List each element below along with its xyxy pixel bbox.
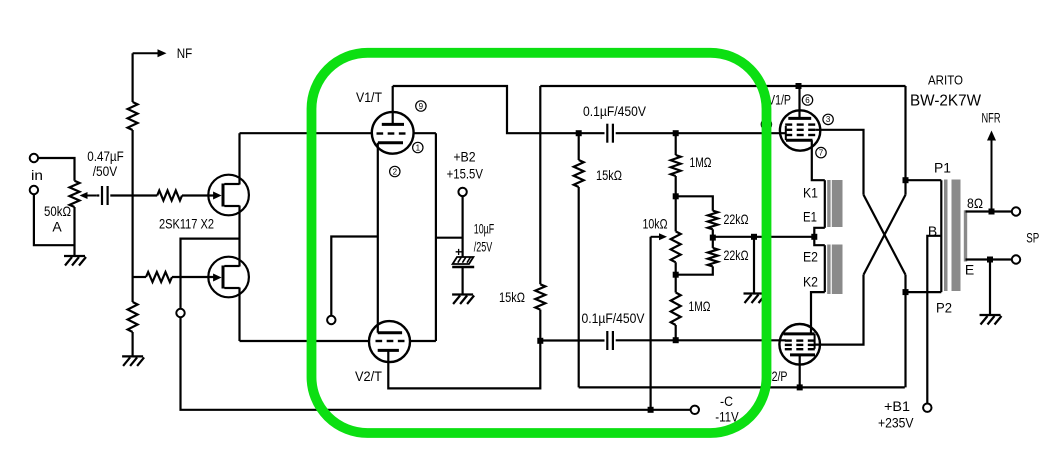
resistor 15kΩ load lower [535,284,545,309]
wire P2 stub [906,291,942,293]
wire 15k upper top lead [578,133,580,160]
svg-text:22kΩ: 22kΩ [724,247,749,263]
svg-text:V2/T: V2/T [355,368,382,384]
input jack terminal (in, return) [30,186,38,194]
wire V1/T cathode to V2/T cathode [377,143,379,333]
wire 1M upper top lead [675,133,677,155]
transformer primary winding P1-B-P2 [940,180,942,292]
transformer core bar thin (K side lower) [827,245,830,295]
svg-text:+B1: +B1 [884,398,910,414]
pin 1 of V1/T [413,142,423,152]
wire V2/T cathode-tail tap to TP2 [331,237,378,316]
svg-text:15kΩ: 15kΩ [596,167,622,183]
pin 6 of V1/P [802,95,812,105]
wire +B2 terminal down [462,196,464,257]
wire secondary top (8Ω) [966,210,1012,212]
pentode V1/P g2 dashes [785,129,815,131]
wire V1/T plate to coupling node [393,86,579,133]
wire 10k wiper to -C rail [649,237,651,410]
junction 22k midpoint [710,235,716,241]
junction V1/T plate node [576,130,582,136]
pentode V1/P plate bar [788,117,811,120]
junction bias divider top [673,193,679,199]
svg-text:7: 7 [819,148,824,157]
pin 2 of V1/T [390,166,400,176]
wire pot bottom lead [675,262,677,274]
triode V1/T grid dashes [377,132,406,134]
svg-text:2: 2 [393,167,398,176]
svg-text:BW-2K7W: BW-2K7W [910,93,982,110]
wire V1/P screen g2 to cross [815,130,863,195]
transformer winding E2-K2 [824,245,826,292]
pentode V1/P grid side-rail [785,126,787,140]
svg-text:in: in [31,167,43,183]
pentode V2/P cathode flag tick [814,334,816,349]
resistor NF divider lower [128,302,138,332]
wire NF feedback vertical [132,53,134,102]
wire TP1 to -C rail [181,317,389,410]
ground (screen return) [744,294,766,304]
ground (input pot) [64,256,86,266]
svg-text:0.1µF/450V: 0.1µF/450V [583,103,647,119]
svg-text:1MΩ: 1MΩ [689,298,711,314]
test point TP1 [176,309,184,317]
wire divider top to 22k [676,196,713,210]
wire 1M node to V1/P grid [676,132,786,134]
wire V2/T plate node to cap2 [540,339,604,341]
svg-text:P2: P2 [936,300,952,316]
wire 1M upper bottom lead [675,176,677,196]
wire V1/P cathode to K1 [812,140,825,180]
pin 9 of V1/T [416,101,426,111]
triode V2/T envelope [369,321,410,362]
wire rail corner down to P1 [904,86,906,195]
JFET Q2 (2SK117) envelope [208,257,249,298]
pentode V2/P plate bar [790,353,815,356]
wire cap to gate resistor Q1 [110,194,157,196]
wire grid bias vertical (B2 rail) [435,133,437,341]
JFET Q1 source stub [224,205,239,207]
svg-text:A: A [52,219,62,235]
junction wiper to -C rail [648,407,654,413]
wire 15k upper to V2/P plate node [579,386,800,388]
svg-text:10µF: 10µF [474,221,495,237]
pentode V1/P envelope [780,110,820,150]
junction V2/T plate node [537,338,543,344]
wire cross A to P2 node [904,275,906,388]
svg-text:2SK117 X2: 2SK117 X2 [159,216,214,232]
wire V1/T plate riser [392,86,394,124]
transformer core bar thick (K side lower) [832,245,843,295]
terminal SP return [1012,255,1020,263]
svg-text:B: B [928,223,937,239]
wire cap2 to V2/P grid [616,339,786,341]
pentode V2/P g3 dashes [785,348,815,350]
svg-text:P1: P1 [934,160,951,176]
svg-text:E: E [965,262,974,278]
svg-text:22kΩ: 22kΩ [724,211,749,227]
svg-text:E2: E2 [803,249,818,265]
wire cross diagonal A [864,195,906,275]
wire NF to ground [132,332,134,356]
pentode V1/P g3 dashes [785,123,815,125]
svg-text:+15.5V: +15.5V [447,166,484,182]
junction E ground tap [987,257,993,263]
junction E1-E2 node [811,234,817,240]
wire NF mid segment [132,130,134,302]
junction NFR tap [989,209,995,215]
capacitor 0.47µF/50V [102,186,108,205]
svg-text:V1/T: V1/T [356,89,382,105]
JFET Q2 drain stub [224,265,239,267]
pin 1 of V1/P [761,119,771,129]
wire gate resistor to Q2 [172,276,214,278]
NF arrow [133,49,167,57]
wire V1/T grid right stub [414,132,436,134]
capacitor 0.1µF/450V (lower) [607,331,613,350]
resistor NF feedback upper [128,102,138,130]
pentode V2/P cathode bar [784,332,815,335]
junction V1/P plate node [796,83,802,89]
junction V2/P grid node [673,337,679,343]
wire K2 to V2/P cathode [811,292,825,334]
wire Q2 source to V2/T grid [240,340,370,342]
wire cascode tap to test point TP1 [181,239,240,309]
pentode V1/P cathode bar [786,139,813,142]
wire V2/T grid right stub [410,340,436,342]
transformer core bar thin (K side upper) [827,180,830,227]
terminal +B2 [458,188,466,196]
svg-text:K2: K2 [803,274,818,290]
svg-text:1: 1 [416,143,421,152]
wire 22k bottom to divider [676,266,713,274]
pentode V2/P g1 dashes [785,339,815,341]
transformer winding K1-E1 [824,180,826,228]
potentiometer 50kΩ wiper arrow [80,192,97,199]
wire 15k lower bottom lead [539,310,541,341]
resistor gate Q2 [146,272,172,282]
pentode V1/P g1 dashes [785,134,815,136]
wire 15k lower top lead (from B rail) [539,86,541,284]
svg-text:3: 3 [826,115,831,124]
resistor 22kΩ lower [708,248,718,267]
wire 10µF to ground [462,267,464,295]
resistor 22kΩ upper [708,211,718,230]
junction P1 tap [903,177,909,183]
pin 3 of V1/P [823,114,833,124]
wire gate lead Q2 [133,276,146,278]
wire 22k mid lead [712,229,714,248]
triode V1/T envelope [372,112,414,154]
wire P1 stub [906,179,942,181]
wire pot bottom / input return [34,194,75,245]
pin 7 of V1/P [816,147,826,157]
potentiometer 50kΩ body [70,181,80,207]
triode V1/T cathode bar [378,141,403,144]
pentode V2/P envelope [779,324,820,365]
terminal +B1 [923,404,931,412]
wire pot wiper to coupling cap [97,194,100,196]
svg-text:-C: -C [720,393,733,409]
wire ground tap down [753,237,755,294]
wire cap1 to 1M node [616,132,676,134]
wire V2/P screen g2 to cross [815,275,863,345]
triode V1/T plate bar [382,123,404,126]
svg-text:1MΩ: 1MΩ [690,154,712,170]
wire 22k mid to screen-return node [713,236,815,238]
transformer core bar thick (K side upper) [832,180,843,227]
svg-text:ARITO: ARITO [928,73,963,88]
svg-text:10kΩ: 10kΩ [643,216,668,232]
potentiometer 10kΩ wiper arrow [651,233,667,240]
svg-text:50kΩ: 50kΩ [44,203,71,219]
wire E1 lead [814,228,825,237]
resistor 1MΩ lower [671,293,681,326]
wire cross diagonal B [864,195,906,275]
wire B+ rail to P1 [540,85,905,87]
highlight rounded rectangle (green) [312,53,767,433]
wire 1M lower top lead [675,275,677,293]
wire B2 rail stub [436,237,463,239]
junction P2 tap [903,289,909,295]
JFET Q2 channel bar [222,266,225,289]
svg-text:K1: K1 [803,185,818,201]
wire pot bottom to ground [73,207,75,256]
wire 10k pot top lead [675,196,677,231]
svg-text:8Ω: 8Ω [967,195,983,211]
JFET Q1 channel bar [222,184,225,207]
svg-text:+B2: +B2 [453,149,475,165]
potentiometer 10kΩ body [671,231,681,262]
transformer core bar thick (P side) [952,180,961,292]
terminal -C [691,406,699,414]
transformer secondary winding (gray) [964,210,967,261]
wire V2/T plate to load [388,341,540,389]
svg-text:E1: E1 [803,209,817,225]
svg-text:V1/P: V1/P [768,92,791,108]
JFET Q2 gate arrow [213,274,222,282]
JFET Q2 source stub [224,287,239,289]
triode V2/T cathode bar [378,331,402,334]
wire V2/P plate node to P2 riser [800,386,905,388]
ground (B2 bypass) [452,295,474,305]
wire V1/P plate riser [798,86,800,118]
svg-text:+235V: +235V [878,415,914,431]
svg-text:NF: NF [177,45,193,61]
capacitor 10µF/25V electrolytic [452,245,474,267]
junction bias divider bottom [673,272,679,278]
svg-text:/50V: /50V [93,163,118,179]
svg-text:0.47µF: 0.47µF [87,148,124,164]
resistor 15kΩ feedback upper [574,160,584,187]
junction screen-return ground tap [751,234,757,240]
svg-text:15kΩ: 15kΩ [499,289,525,305]
JFET Q1 (2SK117) envelope [208,175,249,216]
capacitor 0.1µF/450V (upper) [607,124,613,143]
wire V2/P plate down [799,355,801,387]
wire gate resistor to Q1 [182,194,214,196]
svg-text:0.1µF/450V: 0.1µF/450V [582,310,646,326]
JFET Q1 gate arrow [213,192,222,200]
wire Q1 drain to V1/T grid [240,132,372,134]
svg-text:NFR: NFR [982,110,1001,126]
junction V1/P grid node [673,130,679,136]
svg-text:6: 6 [805,96,810,105]
wire E tap to ground [989,260,991,316]
wire Q1 drain riser [238,133,240,184]
wire input hot to pot top [38,158,74,181]
ground (NF divider) [122,356,144,366]
triode V2/T plate bar [378,349,399,352]
wire -C rail bottom [388,409,690,411]
NFR arrow [987,131,996,212]
wire Q2 source down [238,288,240,342]
triode V2/T grid dashes [376,340,405,342]
wire secondary bottom (E) [966,258,1012,260]
test point TP2 [327,316,335,324]
svg-text:SP: SP [1026,230,1039,246]
input jack terminal (in, hot) [30,154,38,162]
junction V2/P plate node [797,384,803,390]
wire B tap to +B1 [927,236,941,404]
JFET Q1 drain stub [224,183,239,185]
transformer core bar thin (P side) [944,180,948,292]
terminal SP hot [1012,207,1020,215]
wire Q1 source to Q2 drain (cascode) [238,206,240,267]
wire plate node to cap1 [579,132,605,134]
ground (speaker return) [980,315,1002,325]
wire 15k upper to V2/P plate line [578,187,580,387]
svg-text:/25V: /25V [474,239,493,255]
pentode V2/P g2 dashes [785,344,815,346]
wire E2 lead [814,237,825,245]
resistor gate Q1 [157,191,182,201]
wire 1M lower bottom lead [675,325,677,340]
resistor 1MΩ upper [671,155,681,176]
svg-text:9: 9 [419,102,424,111]
